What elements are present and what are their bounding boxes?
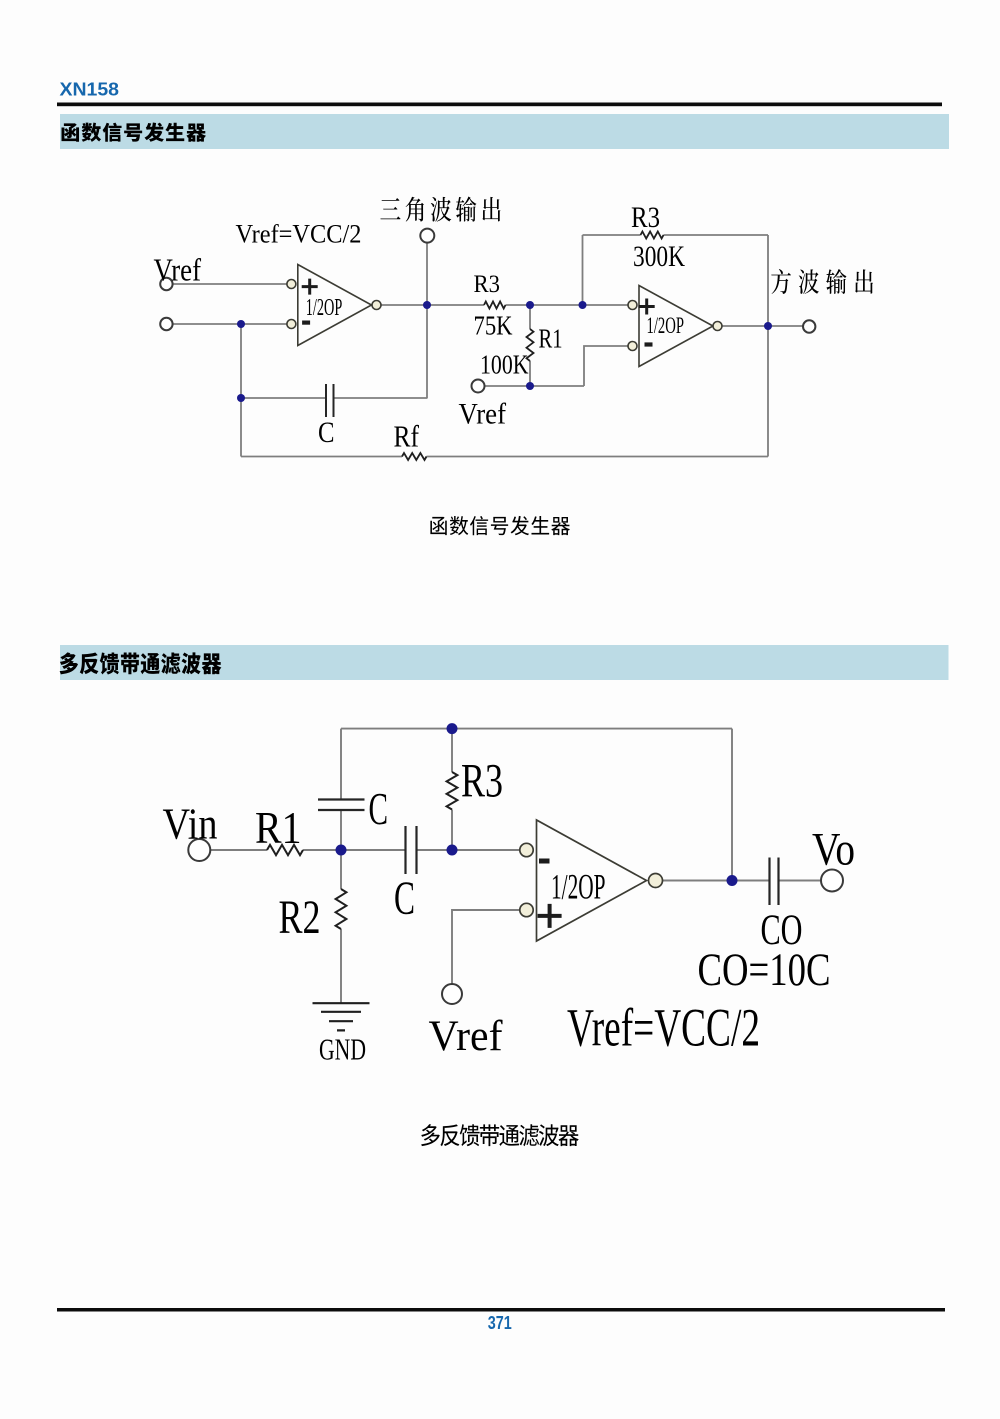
resistor R2 [336,889,347,929]
node junction capacitor left [237,394,245,402]
wire capacitor CO to Vo terminal [779,880,822,882]
svg-text:371: 371 [488,1312,512,1333]
wire node E to capacitor C2 [341,849,406,851]
wire node G to capacitor CO [732,880,770,882]
svg-text:75K: 75K [474,311,513,341]
wire node down to bottom feedback rail [240,398,242,457]
wire capacitor C bottom to node E [340,810,342,850]
section banner 2 title 多反馈带通滤波器 [60,652,222,674]
svg-text:100K: 100K [480,350,529,380]
svg-text:CO=10C: CO=10C [698,945,831,996]
wire node A down to capacitor C right side [426,305,428,398]
wire input1 to op-amp U1 + input [173,283,288,285]
wire bottom feedback rail left of Rf [241,456,402,458]
wire feedback rail down to node G [731,729,733,881]
wire U3 + input to Vref terminal [452,910,520,984]
svg-text:R3: R3 [474,271,501,298]
wire R1 top lead [529,305,531,329]
terminal Vref input 1 [160,278,172,290]
svg-text:R3: R3 [461,755,503,808]
resistor R3 [447,772,458,810]
capacitor C2 plates [406,826,417,874]
wire node E down to R2 [340,850,342,889]
wire triangle output terminal stem [426,238,428,305]
terminal input 2 [160,318,172,330]
node A triangle output junction [423,301,431,309]
label 三角波输出 triangle output [380,197,500,222]
wire R3 75K to node B [506,304,583,306]
terminal Vref [442,984,462,1004]
wire R3 top lead [451,729,453,772]
wire node B to U2 + input [583,304,629,306]
svg-text:R2: R2 [279,891,321,944]
resistor Rf [402,453,427,460]
wire capacitor C left lead [241,397,326,399]
terminal Vref comparator [472,380,485,393]
capacitor C horizontal plates [318,800,365,811]
resistor R3 75K [484,302,506,309]
wire U2 output to node C [722,325,768,327]
capacitor C plates [326,384,334,417]
svg-text:1/2OP: 1/2OP [647,313,685,339]
node C square output junction [764,322,772,330]
op-amp U2 1/2OP [628,286,722,367]
wire node F to U3 - input [452,849,520,851]
wire node B up to feedback [582,235,584,305]
wire U1 inverting node down to capacitor C [240,324,242,398]
capacitor CO plates [770,858,779,906]
wire bottom feedback rail right of Rf [427,456,769,458]
wire node C to square wave terminal [768,325,804,327]
wire feedback down to output node C [767,235,769,326]
svg-text:Vref: Vref [459,398,507,431]
svg-text:Vin: Vin [163,800,218,849]
node top feedback junction [447,723,458,734]
wire U1 output to node A [381,304,427,306]
svg-text:Vref: Vref [154,253,202,288]
node R1 bottom junction [526,382,534,390]
footer rule [57,1308,945,1312]
svg-text:Vref: Vref [429,1012,503,1060]
wire left vertical to capacitor C top [340,729,342,800]
node E input junction [336,845,347,856]
svg-text:XN158: XN158 [60,78,120,99]
wire feedback top left segment [583,234,641,236]
op-amp U1 1/2OP [287,265,381,346]
section banner 1 background [60,114,949,149]
node F R3 junction [447,845,458,856]
svg-text:R1: R1 [539,324,563,354]
wire input2 to op-amp U1 - input [173,323,288,325]
op-amp U3 1/2OP [520,820,663,941]
wire capacitor C right lead [334,397,428,399]
wire node D up to U2 - input [584,346,628,386]
svg-text:R3: R3 [631,201,660,234]
wire Vref terminal to node D [484,385,584,387]
caption 函数信号发生器 [430,516,570,535]
wire node C down to bottom feedback rail [767,326,769,457]
label 方波输出 square output [771,269,873,294]
wire feedback top right segment [664,234,769,236]
svg-text:Vref=VCC/2: Vref=VCC/2 [236,219,362,248]
svg-text:1/2OP: 1/2OP [306,295,343,321]
node junction inverting input [237,320,245,328]
wire node A to resistor R3 75K [427,304,484,306]
svg-text:Rf: Rf [394,419,420,454]
svg-text:C: C [394,872,415,925]
svg-text:C: C [318,416,335,449]
svg-text:GND: GND [319,1032,366,1067]
wire U3 output to node G [663,880,733,882]
wire R1 to node E [303,849,341,851]
resistor R3 300K feedback [641,232,664,239]
wire R3 bottom lead [451,810,453,851]
svg-text:Vo: Vo [812,825,855,876]
wire top feedback rail [341,728,732,730]
svg-text:C: C [369,784,389,834]
node feedback tap junction [579,301,587,309]
node B R3-R1 junction [526,301,534,309]
terminal square wave output [803,320,815,332]
resistor R1 [267,845,303,855]
terminal Vo [821,870,843,892]
section banner 1 title 函数信号发生器 [62,123,207,142]
caption 多反馈带通滤波器 [421,1124,579,1146]
terminal triangle wave output [420,229,434,243]
header rule [57,103,942,107]
wire R2 to ground [340,929,342,1003]
svg-text:300K: 300K [633,240,685,273]
wire R1 bottom lead [529,361,531,386]
terminal Vin [188,839,210,861]
ground symbol GND [313,1003,370,1030]
wire capacitor C2 to node F [417,849,453,851]
section banner 2 background [60,645,949,680]
resistor R1 100K [527,329,534,361]
svg-text:1/2OP: 1/2OP [551,866,606,906]
svg-text:R1: R1 [255,803,302,853]
node G output junction [727,875,738,886]
wire Vin terminal to R1 [211,849,268,851]
svg-text:Vref=VCC/2: Vref=VCC/2 [567,998,760,1058]
